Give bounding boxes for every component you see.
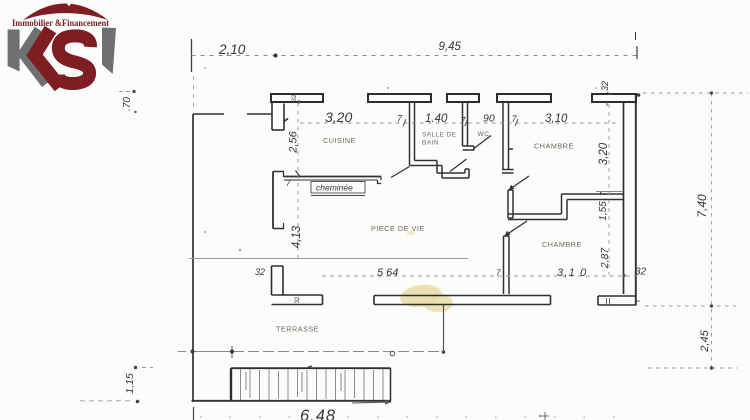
svg-text:BAIN: BAIN (422, 140, 439, 147)
svg-text:.70: .70 (122, 97, 133, 111)
svg-text:32: 32 (635, 267, 647, 278)
svg-text:cheminée: cheminée (316, 183, 353, 193)
svg-text:PIECE DE VIE: PIECE DE VIE (371, 224, 425, 233)
svg-text:7: 7 (496, 269, 501, 278)
svg-text:CHAMBRE: CHAMBRE (542, 240, 582, 249)
svg-text:Immobilier &Financement: Immobilier &Financement (12, 18, 109, 28)
svg-text:7: 7 (286, 179, 291, 188)
svg-text:7: 7 (397, 114, 403, 124)
svg-text:2,45: 2,45 (699, 329, 711, 352)
svg-text:WC: WC (478, 131, 490, 138)
svg-text:1,55: 1,55 (598, 201, 609, 221)
svg-text:32: 32 (255, 267, 265, 277)
svg-text:32: 32 (295, 296, 301, 303)
svg-text:9,45: 9,45 (439, 41, 462, 53)
svg-text:SALLE DE: SALLE DE (422, 132, 457, 139)
svg-text:TERRASSE: TERRASSE (276, 325, 319, 334)
svg-text:32: 32 (291, 94, 298, 102)
svg-text:CHAMBRE: CHAMBRE (534, 142, 574, 151)
svg-text:2,56: 2,56 (288, 130, 300, 153)
svg-text:90: 90 (483, 113, 495, 125)
svg-text:32: 32 (600, 81, 610, 91)
svg-text:3,1 0: 3,1 0 (557, 267, 587, 279)
svg-text:1,15: 1,15 (124, 373, 136, 394)
svg-text:2,10: 2,10 (218, 42, 246, 57)
svg-text:6.48: 6.48 (300, 407, 336, 420)
svg-text:3,20: 3,20 (325, 109, 352, 125)
svg-text:4,13: 4,13 (291, 225, 303, 248)
svg-text:3,10: 3,10 (545, 113, 568, 125)
svg-text:5 64: 5 64 (377, 267, 398, 279)
svg-text:1.40: 1.40 (425, 113, 448, 125)
svg-text:CUISINE: CUISINE (323, 136, 356, 145)
svg-text:3,20: 3,20 (598, 142, 610, 165)
svg-text:7,40: 7,40 (695, 194, 709, 218)
svg-text:2,87: 2,87 (599, 247, 611, 270)
